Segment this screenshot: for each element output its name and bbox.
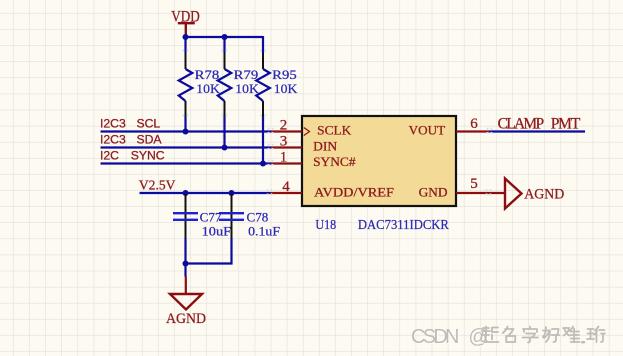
wire CLAMP_PMT [490, 130, 586, 132]
svg-text:6: 6 [470, 116, 478, 132]
svg-text:I2CSYNC: I2CSYNC [100, 148, 165, 162]
pin 3 DIN [271, 133, 302, 149]
svg-text:VOUT: VOUT [409, 123, 446, 138]
svg-text:4: 4 [282, 179, 290, 195]
pin 2 SCLK [271, 117, 302, 133]
junction on VDD bus at R79 [222, 34, 228, 40]
power port AGND right [505, 179, 564, 209]
power port VDD [171, 9, 200, 37]
capacitor C77 [173, 194, 231, 238]
junction SDA/R79 [222, 145, 228, 151]
wire R78 to SCL [184, 117, 186, 132]
svg-text:5: 5 [470, 176, 478, 192]
junction SCL/R78 [183, 129, 189, 135]
wire R95 to SYNC [262, 117, 264, 164]
power port AGND bottom [166, 277, 206, 328]
resistor R95 [256, 53, 298, 118]
wire V2.5V rail [140, 192, 271, 194]
svg-text:SCLK: SCLK [317, 123, 352, 138]
wire R79 to SDA [223, 117, 225, 148]
capacitor C78 [219, 194, 280, 238]
svg-text:CLAMPPMT: CLAMPPMT [498, 115, 581, 132]
wire I2C3_SCL [101, 130, 272, 132]
svg-text:10K: 10K [196, 81, 220, 96]
wire to AGND port [184, 263, 186, 277]
svg-text:CSDN: CSDN [411, 326, 460, 348]
svg-text:GND: GND [419, 184, 448, 199]
svg-text:10K: 10K [235, 81, 259, 96]
wire I2C_SYNC [101, 162, 272, 164]
svg-text:1: 1 [280, 149, 288, 165]
junction V2.5V/C77 [183, 190, 189, 196]
svg-text:SYNC#: SYNC# [313, 154, 356, 169]
watermark hanzi [482, 327, 605, 343]
junction on VDD bus at R78 [183, 34, 189, 40]
svg-text:V2.5V: V2.5V [139, 178, 176, 193]
svg-text:C78: C78 [247, 210, 269, 225]
pin hotspot markers [183, 50, 493, 196]
pin 1 SYNC# [271, 149, 302, 165]
svg-text:AGND: AGND [524, 187, 564, 203]
pin 6 VOUT [456, 116, 490, 132]
resistor R78 [179, 53, 221, 118]
wire VDD bus [186, 36, 264, 53]
pin 5 GND [456, 176, 505, 193]
svg-text:AVDD/VREF: AVDD/VREF [314, 184, 394, 199]
svg-text:10K: 10K [274, 81, 298, 96]
junction V2.5V/C78 [229, 190, 235, 196]
watermark CSDN [411, 326, 490, 349]
svg-text:0.1uF: 0.1uF [248, 223, 280, 238]
pin 4 AVDD/VREF [270, 179, 302, 195]
wire I2C3_SDA [101, 146, 272, 148]
wire C78 down and left [186, 238, 232, 264]
junction SYNC/R95 [260, 161, 266, 167]
svg-text:DAC7311IDCKR: DAC7311IDCKR [358, 218, 450, 233]
svg-text:DIN: DIN [313, 138, 338, 153]
svg-text:2: 2 [280, 117, 288, 133]
svg-text:3: 3 [280, 133, 288, 149]
svg-text:AGND: AGND [166, 311, 206, 327]
svg-text:U18: U18 [315, 218, 336, 233]
junction bottom rail [183, 261, 189, 267]
svg-text:C77: C77 [200, 210, 222, 225]
IC U18 body [302, 116, 456, 206]
resistor R79 [218, 53, 260, 118]
wire C77 to AGND rail [184, 238, 186, 264]
svg-text:10uF: 10uF [202, 223, 232, 238]
